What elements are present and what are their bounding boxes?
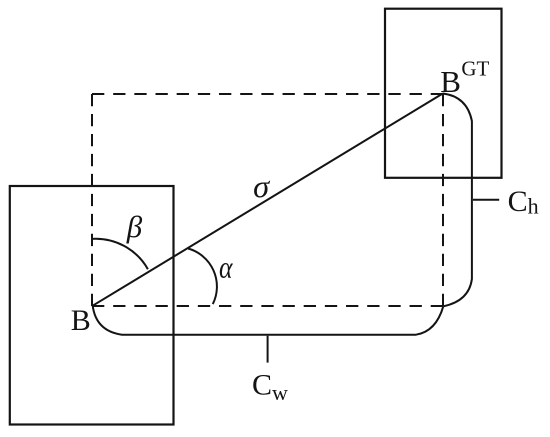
- box BGT (ground-truth box, upper-right solid rectangle): [385, 9, 502, 178]
- arc beta (between vertical dashed edge and diagonal): [92, 239, 148, 269]
- enclosing dashed box left edge: [91, 94, 93, 306]
- tick for Ch label: [473, 199, 499, 201]
- svg-text:σ: σ: [253, 168, 270, 204]
- arc alpha (between diagonal and horizontal dashed edge): [188, 249, 217, 305]
- enclosing dashed box right edge: [442, 94, 444, 306]
- box B (predicted box, lower-left solid rectangle): [10, 186, 174, 425]
- svg-text:β: β: [126, 209, 143, 244]
- svg-text:α: α: [219, 250, 233, 285]
- dimension line Cw (below bottom dashed edge): [93, 306, 444, 335]
- enclosing dashed box top edge: [92, 93, 443, 95]
- tick for Cw label: [267, 336, 269, 363]
- enclosing dashed box bottom edge: [92, 305, 443, 307]
- dimension line Ch (right of right dashed edge): [443, 94, 472, 307]
- svg-text:B: B: [71, 304, 91, 337]
- diagonal sigma line from B corner to BGT corner: [93, 94, 443, 306]
